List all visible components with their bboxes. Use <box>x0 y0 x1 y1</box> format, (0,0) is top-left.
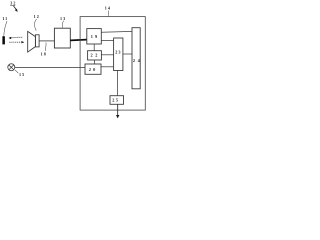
svg-text:20: 20 <box>89 67 98 72</box>
leader line 14 <box>107 10 109 16</box>
svg-text:23: 23 <box>115 49 121 54</box>
label 32 (underlined assembly reference) <box>10 1 16 6</box>
wire 23 to 24 <box>123 53 132 55</box>
wire 19 to 22 (vertical) <box>93 44 95 51</box>
svg-text:15: 15 <box>19 72 25 77</box>
svg-text:14: 14 <box>105 6 111 11</box>
wire 20 to 23 <box>101 66 114 68</box>
svg-text:12: 12 <box>34 14 40 19</box>
wire 19 to 23 <box>101 40 113 42</box>
svg-text:25: 25 <box>112 97 119 102</box>
svg-text:32: 32 <box>10 1 16 6</box>
wire 22 to 20 (vertical) <box>93 60 95 64</box>
svg-text:18: 18 <box>41 51 47 56</box>
dashed arrow pointing right (beam toward horn) <box>10 41 25 43</box>
box 22 <box>88 51 102 60</box>
svg-text:13: 13 <box>60 16 66 21</box>
thick wire 13 to 19 <box>70 39 87 42</box>
leader line 15 <box>15 70 18 73</box>
emitter circle 15 (circle with X) <box>8 64 15 71</box>
dashed arrow pointing left (beam toward source) <box>9 37 24 40</box>
leader line 11 <box>4 21 7 36</box>
leader line 18 <box>44 42 47 51</box>
box 20 <box>85 64 101 74</box>
box 25 <box>110 96 124 105</box>
wire 23 to 25 (vertical) <box>117 71 119 96</box>
wire 19 to 24 <box>101 30 132 33</box>
wire 22 to 23 <box>101 54 113 56</box>
svg-text:19: 19 <box>91 34 100 39</box>
speaker horn driver rect <box>35 35 39 47</box>
leader line 13 <box>62 21 63 28</box>
leader line 12 <box>35 19 37 31</box>
speaker horn cone 12 <box>28 31 36 52</box>
svg-text:22: 22 <box>91 52 101 57</box>
wire horn to box 13 <box>39 40 54 42</box>
box 13 <box>54 28 70 48</box>
light source rect 11 (filled) <box>2 36 5 44</box>
output wire from 25 with arrow <box>116 104 119 118</box>
box 19 <box>87 29 102 44</box>
box 24 (tall) <box>132 28 140 89</box>
arrow from label 32 pointing down-right <box>14 6 18 12</box>
svg-text:24: 24 <box>133 58 143 63</box>
big enclosure box 14 <box>80 17 145 111</box>
box 23 <box>114 38 123 71</box>
wire 15 to box 20 <box>15 66 85 68</box>
svg-text:11: 11 <box>2 16 8 21</box>
